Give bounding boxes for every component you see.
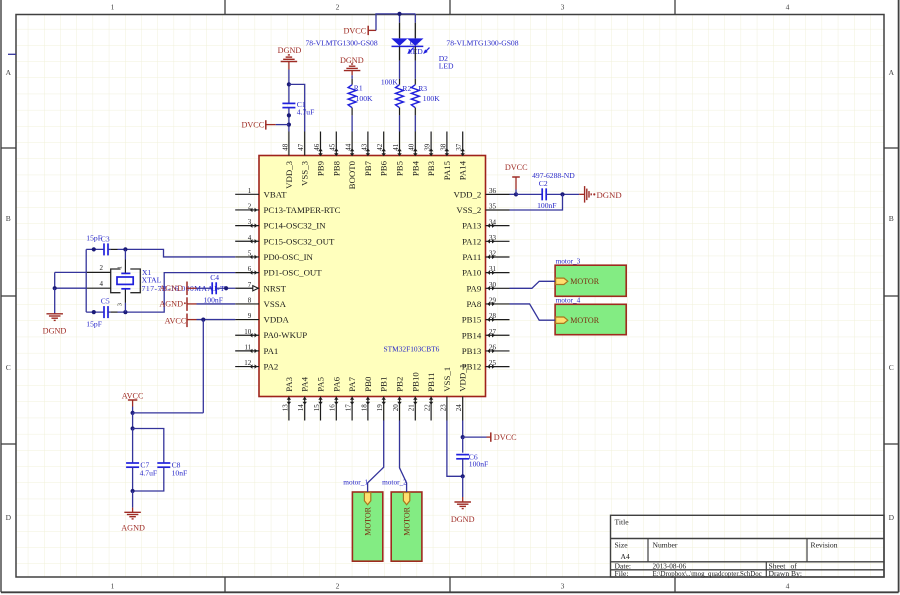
- svg-text:100K: 100K: [356, 94, 373, 103]
- svg-text:Revision: Revision: [811, 541, 838, 550]
- svg-text:PA9: PA9: [466, 283, 481, 293]
- svg-text:VSS_2: VSS_2: [456, 205, 481, 215]
- svg-text:PB5: PB5: [395, 160, 405, 176]
- svg-text:R3: R3: [418, 84, 427, 93]
- svg-text:motor_3: motor_3: [556, 257, 581, 266]
- svg-text:motor_2: motor_2: [382, 478, 407, 487]
- svg-text:4.7uF: 4.7uF: [140, 469, 158, 478]
- svg-text:19: 19: [376, 404, 384, 412]
- svg-text:3: 3: [117, 303, 124, 306]
- svg-text:Drawn By:: Drawn By:: [769, 569, 803, 578]
- svg-text:MOTOR: MOTOR: [570, 316, 599, 325]
- svg-text:PB15: PB15: [462, 315, 482, 325]
- svg-text:AVCC: AVCC: [122, 391, 144, 400]
- svg-text:PA13: PA13: [462, 221, 482, 231]
- svg-text:PA0-WKUP: PA0-WKUP: [264, 330, 308, 340]
- svg-text:DVCC: DVCC: [494, 433, 517, 442]
- svg-text:VDD_3: VDD_3: [284, 160, 294, 188]
- svg-text:DGND: DGND: [278, 46, 302, 55]
- svg-text:PA3: PA3: [284, 376, 294, 391]
- svg-text:PB11: PB11: [426, 373, 436, 392]
- svg-text:47: 47: [297, 143, 305, 151]
- svg-text:PB7: PB7: [363, 160, 373, 176]
- svg-text:PB3: PB3: [426, 160, 436, 176]
- svg-text:A: A: [6, 68, 12, 77]
- svg-text:2: 2: [336, 582, 340, 591]
- svg-text:PD1-OSC_OUT: PD1-OSC_OUT: [264, 268, 323, 278]
- svg-text:3: 3: [561, 3, 565, 12]
- svg-text:C: C: [889, 363, 894, 372]
- svg-text:20: 20: [392, 404, 400, 412]
- svg-text:13: 13: [281, 404, 289, 412]
- svg-text:PB9: PB9: [316, 160, 326, 176]
- svg-text:C5: C5: [101, 296, 110, 305]
- svg-text:DGND: DGND: [597, 190, 622, 200]
- svg-text:100nF: 100nF: [469, 459, 488, 468]
- svg-text:4: 4: [786, 3, 790, 12]
- svg-text:1: 1: [111, 3, 115, 12]
- svg-text:3: 3: [561, 582, 565, 591]
- svg-text:14: 14: [297, 404, 305, 412]
- svg-text:48: 48: [281, 143, 289, 151]
- svg-text:18: 18: [360, 404, 368, 412]
- svg-text:7: 7: [248, 281, 252, 289]
- svg-text:16: 16: [329, 404, 337, 412]
- svg-text:15pF: 15pF: [86, 319, 102, 328]
- svg-text:100nF: 100nF: [537, 201, 556, 210]
- svg-text:DGND: DGND: [43, 327, 67, 336]
- svg-text:C2: C2: [539, 179, 548, 188]
- svg-text:A4: A4: [621, 552, 630, 561]
- svg-text:PA15: PA15: [442, 160, 452, 180]
- svg-text:MOTOR: MOTOR: [402, 506, 411, 535]
- svg-text:PA6: PA6: [331, 376, 341, 391]
- svg-text:AGND: AGND: [159, 284, 183, 293]
- svg-text:100K: 100K: [423, 94, 440, 103]
- svg-text:PB13: PB13: [462, 346, 482, 356]
- svg-text:100K: 100K: [381, 78, 398, 87]
- svg-text:10nF: 10nF: [172, 469, 188, 478]
- svg-text:PC15-OSC32_OUT: PC15-OSC32_OUT: [264, 236, 335, 246]
- svg-text:35: 35: [489, 203, 497, 211]
- svg-text:PA11: PA11: [462, 252, 481, 262]
- svg-text:21: 21: [408, 404, 416, 412]
- svg-text:1: 1: [248, 187, 252, 195]
- svg-text:1: 1: [117, 266, 124, 269]
- svg-text:R2: R2: [402, 84, 411, 93]
- svg-text:15pF: 15pF: [86, 234, 102, 243]
- svg-text:100nF: 100nF: [204, 296, 223, 305]
- svg-text:4: 4: [100, 280, 104, 288]
- svg-text:2: 2: [100, 264, 104, 272]
- svg-text:4.7uF: 4.7uF: [297, 107, 315, 116]
- svg-text:PB8: PB8: [331, 160, 341, 176]
- svg-text:AGND: AGND: [121, 523, 145, 532]
- svg-text:DVCC: DVCC: [241, 121, 264, 130]
- svg-text:2013-08-06: 2013-08-06: [653, 562, 687, 570]
- svg-text:1: 1: [111, 582, 115, 591]
- svg-text:Number: Number: [653, 541, 678, 550]
- svg-text:PB2: PB2: [395, 377, 405, 392]
- svg-text:VSSA: VSSA: [264, 299, 287, 309]
- svg-text:B: B: [6, 214, 11, 223]
- svg-text:PB1: PB1: [379, 377, 389, 392]
- svg-text:motor_1: motor_1: [343, 478, 368, 487]
- svg-text:Title: Title: [615, 518, 630, 527]
- svg-text:2: 2: [336, 3, 340, 12]
- svg-text:Size: Size: [615, 541, 629, 550]
- svg-text:C: C: [6, 363, 11, 372]
- svg-text:PD0-OSC_IN: PD0-OSC_IN: [264, 252, 314, 262]
- svg-text:MOTOR: MOTOR: [570, 277, 599, 286]
- svg-text:PB4: PB4: [410, 160, 420, 176]
- svg-text:AVCC: AVCC: [165, 316, 187, 325]
- svg-text:AGND: AGND: [159, 299, 183, 308]
- svg-text:PA5: PA5: [316, 376, 326, 391]
- svg-text:E:\Dropbox\..\mog_quadcopter.S: E:\Dropbox\..\mog_quadcopter.SchDoc: [653, 571, 762, 578]
- svg-text:PA12: PA12: [462, 236, 481, 246]
- svg-text:NRST: NRST: [264, 283, 287, 293]
- svg-text:C3: C3: [101, 235, 110, 244]
- svg-text:9: 9: [248, 312, 252, 320]
- svg-text:D: D: [6, 513, 12, 522]
- svg-text:A: A: [889, 68, 895, 77]
- svg-text:PA14: PA14: [458, 160, 468, 180]
- svg-text:78-VLMTG1300-GS08: 78-VLMTG1300-GS08: [306, 39, 378, 48]
- svg-text:4: 4: [786, 582, 790, 591]
- svg-text:DGND: DGND: [451, 515, 475, 524]
- svg-text:8: 8: [248, 297, 252, 305]
- svg-text:VDD_1: VDD_1: [458, 364, 468, 392]
- svg-text:VSS_1: VSS_1: [442, 367, 452, 392]
- svg-text:15: 15: [313, 404, 321, 412]
- svg-text:LED: LED: [439, 62, 454, 71]
- svg-text:motor_4: motor_4: [556, 296, 581, 305]
- svg-text:17: 17: [345, 404, 353, 412]
- svg-text:B: B: [889, 214, 894, 223]
- svg-text:23: 23: [439, 404, 447, 412]
- svg-text:BOOT0: BOOT0: [347, 160, 357, 189]
- svg-text:PA4: PA4: [300, 376, 310, 391]
- svg-text:XTAL: XTAL: [142, 275, 162, 284]
- svg-text:PC14-OSC32_IN: PC14-OSC32_IN: [264, 221, 327, 231]
- svg-text:PA1: PA1: [264, 346, 279, 356]
- svg-text:MOTOR: MOTOR: [363, 506, 372, 535]
- svg-text:D: D: [889, 513, 895, 522]
- svg-text:PB14: PB14: [462, 330, 482, 340]
- svg-text:36: 36: [489, 187, 497, 195]
- svg-text:PA2: PA2: [264, 362, 279, 372]
- svg-text:PC13-TAMPER-RTC: PC13-TAMPER-RTC: [264, 205, 341, 215]
- svg-text:PB6: PB6: [379, 160, 389, 176]
- svg-text:DVCC: DVCC: [343, 26, 366, 35]
- svg-text:DVCC: DVCC: [505, 163, 528, 172]
- svg-text:22: 22: [424, 404, 432, 412]
- svg-text:R1: R1: [354, 84, 363, 93]
- svg-text:PB10: PB10: [410, 372, 420, 392]
- svg-text:VSS_3: VSS_3: [300, 160, 310, 186]
- svg-text:PB0: PB0: [363, 376, 373, 392]
- svg-text:PA8: PA8: [466, 299, 481, 309]
- svg-text:VDDA: VDDA: [264, 315, 290, 325]
- svg-text:VDD_2: VDD_2: [453, 189, 481, 199]
- svg-text:78-VLMTG1300-GS08: 78-VLMTG1300-GS08: [446, 39, 518, 48]
- svg-text:STM32F103CBT6: STM32F103CBT6: [384, 344, 440, 353]
- svg-text:VBAT: VBAT: [264, 189, 288, 199]
- svg-text:File:: File:: [615, 569, 629, 578]
- svg-text:C4: C4: [210, 273, 219, 282]
- svg-text:24: 24: [455, 404, 463, 412]
- svg-text:PA7: PA7: [347, 376, 357, 391]
- svg-text:PA10: PA10: [462, 268, 482, 278]
